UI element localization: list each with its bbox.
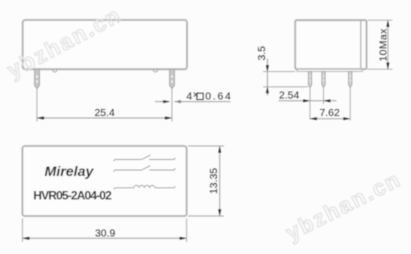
switch contact S1	[113, 155, 175, 161]
side pin 3	[349, 71, 352, 87]
dimension 10 Max	[368, 20, 393, 69]
relay case front view	[23, 20, 187, 69]
extension line bottom-left corner	[21, 219, 23, 243]
svg-text:13.35: 13.35	[209, 168, 220, 194]
svg-text:2.54: 2.54	[279, 90, 299, 101]
dimension 30.9	[22, 229, 186, 240]
side pin 1	[308, 71, 311, 87]
extension line pin4	[171, 89, 173, 122]
svg-text:4: 4	[186, 92, 192, 103]
svg-text:Mirelay: Mirelay	[45, 164, 95, 180]
dimension 2.54	[279, 90, 337, 102]
watermark ybzhan.cn upper-left	[3, 2, 126, 83]
extension line bottom-right corner	[186, 219, 188, 243]
case lid edge line	[360, 21, 362, 69]
rear pin bump left	[53, 70, 57, 72]
dimension 3.5	[257, 46, 308, 96]
svg-text:0.64: 0.64	[205, 92, 232, 103]
svg-text:30.9: 30.9	[95, 229, 115, 240]
dimension 7.62	[310, 108, 350, 120]
svg-text:25.4: 25.4	[95, 108, 115, 119]
leader 4x square 0.64	[155, 90, 233, 103]
pin 4 (front view right)	[170, 69, 175, 88]
svg-text:3.5: 3.5	[257, 46, 268, 61]
svg-text:HVR05-2A04-02: HVR05-2A04-02	[33, 189, 112, 203]
extension line pin1	[36, 89, 38, 122]
extension line side pin1	[309, 88, 311, 120]
relay case side view	[295, 20, 366, 69]
dimension 25.4	[37, 108, 172, 119]
svg-text:7.62: 7.62	[320, 108, 340, 119]
relay case top (marking) view	[22, 146, 186, 216]
svg-text:10Max: 10Max	[378, 28, 389, 62]
switch contact S2	[113, 166, 175, 172]
side pin 2	[322, 71, 325, 87]
case base plate	[297, 69, 362, 71]
dimension 13.35	[188, 146, 224, 216]
watermark ybzhan.cn lower-right	[282, 166, 405, 245]
coil L1	[113, 185, 175, 189]
extension line side pin2	[323, 88, 325, 104]
rear pin bump right	[153, 70, 157, 72]
extension line side pin3	[349, 88, 351, 121]
pin 1 (front view left)	[35, 69, 40, 88]
